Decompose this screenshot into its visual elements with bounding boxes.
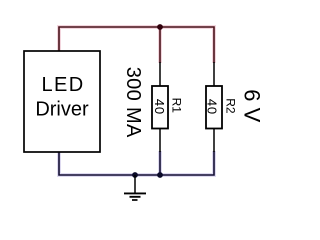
svg-text:40: 40 xyxy=(205,99,220,115)
node junction bottom-left (ground tap) xyxy=(132,172,138,178)
svg-text:LED: LED xyxy=(41,74,84,96)
svg-text:R1: R1 xyxy=(169,98,183,114)
wire ground net halo xyxy=(59,151,214,175)
svg-text:300 MA: 300 MA xyxy=(122,67,144,138)
resistor R1 xyxy=(152,62,184,152)
svg-text:6 V: 6 V xyxy=(240,89,265,122)
ground xyxy=(124,175,146,200)
svg-text:R2: R2 xyxy=(224,98,238,114)
wire positive net halo xyxy=(59,27,214,63)
svg-text:40: 40 xyxy=(152,99,167,115)
wire positive net (red): LED Driver top to R1/R2 tops xyxy=(59,27,214,63)
node junction bottom-right (R1 bottom) xyxy=(157,172,163,178)
svg-text:Driver: Driver xyxy=(35,98,89,120)
LED Driver block U1 xyxy=(24,51,100,152)
node junction top (red net at R1 branch) xyxy=(157,24,163,30)
resistor R2 xyxy=(205,62,238,152)
wire ground net (blue): LED Driver bottom along to R1/R2 bottoms xyxy=(59,151,214,175)
